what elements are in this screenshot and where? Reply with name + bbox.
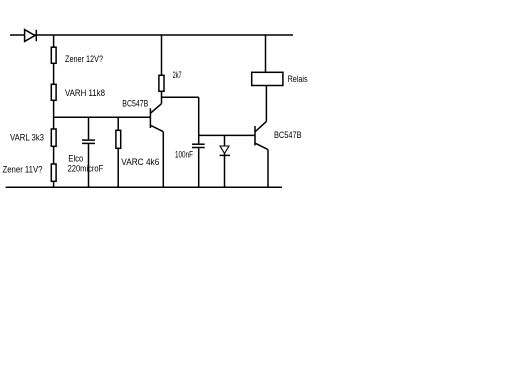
wire VARC branch bottom	[117, 148, 119, 187]
wire between VARL and Zener 11V?	[53, 146, 55, 164]
transistor Q2 BC547B	[255, 121, 302, 149]
svg-text:VARC 4k6: VARC 4k6	[121, 157, 159, 167]
wire collector rail	[162, 96, 199, 98]
wire Q2 emitter to bottom rail	[267, 150, 269, 188]
capacitor Elco 220microF	[68, 140, 104, 173]
svg-text:220microF: 220microF	[68, 163, 104, 173]
svg-text:Zener 12V?: Zener 12V?	[65, 54, 103, 64]
wire between R1 and R2	[53, 63, 55, 84]
wire zener D2 to bottom rail	[224, 153, 226, 187]
capacitor 100nF	[175, 144, 205, 159]
resistor VARC 4k6	[116, 130, 121, 148]
wire Zener 11V? to bottom rail	[53, 181, 55, 187]
wire Elco branch top	[88, 117, 90, 139]
wire 2k7 to Q1 collector	[161, 91, 163, 103]
wire zener D2 branch top	[224, 135, 226, 146]
svg-text:BC547B: BC547B	[274, 130, 302, 140]
svg-text:Relais: Relais	[288, 74, 308, 84]
svg-text:VARH 11k8: VARH 11k8	[65, 88, 105, 98]
diode D1	[25, 30, 37, 42]
transistor Q1 BC547B	[122, 99, 163, 132]
zener diode D2	[220, 146, 230, 155]
svg-text:BC547B: BC547B	[122, 99, 148, 109]
wire base rail to Q1	[54, 116, 151, 118]
svg-text:Elco: Elco	[68, 153, 83, 163]
wire bottom ground rail	[6, 186, 282, 188]
svg-text:2k7: 2k7	[173, 70, 182, 80]
svg-text:100nF: 100nF	[175, 150, 193, 160]
wire left chain vertical	[53, 35, 55, 47]
resistor VARH 11k8	[51, 84, 56, 100]
svg-text:Zener 11V?: Zener 11V?	[3, 165, 43, 175]
wire Elco branch bottom	[88, 144, 90, 187]
wire top supply rail	[10, 34, 293, 36]
resistor VARL 3k3	[51, 129, 56, 146]
wire R2 to base-rail junction	[53, 100, 55, 129]
wire collector rail drop	[198, 97, 200, 143]
wire Q2 collector to relay	[265, 86, 267, 122]
resistor Zener 12V?	[51, 47, 56, 63]
wire 100nF to bottom rail	[198, 148, 200, 187]
svg-text:VARL 3k3: VARL 3k3	[10, 132, 44, 142]
wire VARC branch top	[117, 117, 119, 130]
wire relay feed from top rail	[265, 35, 267, 72]
resistor 2k7	[159, 75, 164, 91]
wire 2k7 branch top	[161, 35, 163, 75]
wire Q1 emitter to bottom rail	[162, 132, 164, 188]
resistor Zener 11V?	[51, 164, 56, 181]
relay Relais	[252, 72, 308, 85]
wire Q2 base rail	[199, 134, 255, 136]
